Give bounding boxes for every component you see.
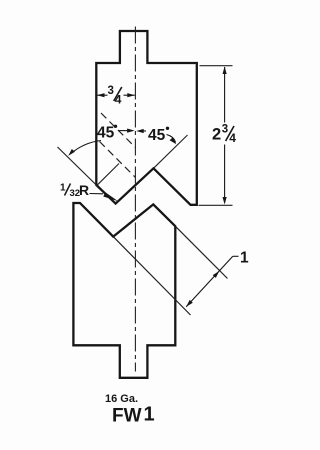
dashed line E1 (45 deg reference, lower) <box>100 142 136 178</box>
punch tip cross reference line (-45) <box>97 164 119 186</box>
punch left face extension line <box>58 147 97 185</box>
punch right face extension line <box>154 135 188 168</box>
dimension 1 arrow lower <box>186 300 193 307</box>
dimension 3/4 line left segment <box>97 94 108 96</box>
dimension 1 line <box>186 256 233 307</box>
dimension 1 arrow upper <box>213 271 220 278</box>
die D1 outline <box>73 203 175 378</box>
dimension 45 right arc <box>167 135 176 143</box>
svg-text:1: 1 <box>240 250 249 267</box>
svg-text:1: 1 <box>144 404 155 426</box>
svg-text:3: 3 <box>108 85 114 97</box>
dimension 2 3/4 line lower segment <box>224 145 226 203</box>
svg-text:4: 4 <box>115 93 122 107</box>
dimension 45 right arc arrow <box>170 137 177 144</box>
svg-text:1: 1 <box>60 183 66 194</box>
dimension 1 leader horizontal <box>233 255 239 257</box>
radius leader line <box>90 193 104 195</box>
radius leader arrow at punch tip <box>103 192 118 201</box>
dimension 3/4 arrow right <box>127 93 135 97</box>
dimension 2 3/4 arrow bottom <box>223 197 227 205</box>
dimension 2 3/4 top extension line <box>200 65 233 67</box>
punch P1 outline <box>96 31 197 205</box>
dimension 2 3/4 bottom extension line <box>199 204 233 206</box>
svg-text:3: 3 <box>222 124 228 136</box>
dimension 45 left arrow at centerline <box>127 129 135 133</box>
dimension 45 left leader to centerline <box>118 130 130 132</box>
dimension 45 right leader to centerline <box>140 130 146 132</box>
svg-text:4: 4 <box>229 131 236 145</box>
die groove face extension line <box>175 226 227 278</box>
dimension 3/4 line right segment <box>124 94 135 96</box>
svg-text:45: 45 <box>148 127 166 144</box>
svg-text:45: 45 <box>97 125 115 142</box>
dimension 2 3/4 arrow top <box>223 67 227 75</box>
dimension 45 right arrow at centerline <box>136 129 144 133</box>
dashed line D1 (45 deg reference, upper) <box>101 113 135 148</box>
dimension 3/4 arrow left <box>97 93 105 97</box>
svg-text:R: R <box>79 182 89 198</box>
svg-text:FW: FW <box>112 406 142 427</box>
dimension 45 left arc <box>71 141 101 154</box>
svg-text:16 Ga.: 16 Ga. <box>105 393 138 405</box>
dimension 45 left arc arrow <box>68 149 75 156</box>
centerline CL (vertical dash-dot) <box>134 27 136 372</box>
dimension 2 3/4 line upper segment <box>224 67 226 123</box>
svg-text:2: 2 <box>212 126 221 144</box>
die valley extension line <box>113 237 190 315</box>
